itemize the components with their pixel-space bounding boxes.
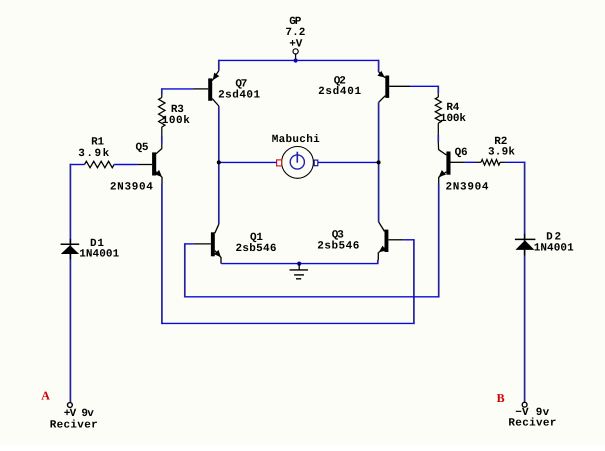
resistor R2 3.9k — [475, 136, 515, 165]
wire Q7 base to R3 — [162, 88, 194, 90]
wire R2 right corner down to D2 — [505, 161, 525, 163]
svg-text:1N4001: 1N4001 — [534, 243, 574, 255]
svg-text:2N3904: 2N3904 — [110, 182, 153, 194]
svg-text:Reciver: Reciver — [508, 417, 556, 429]
node A terminal — [41, 388, 97, 431]
wire R3 bottom to Q5 collector — [161, 127, 163, 136]
transistor Q3 2sb546 — [317, 222, 403, 260]
wire right trunk (Q2 emitter to Q3 collector) — [378, 102, 380, 222]
resistor R3 100k — [159, 98, 191, 128]
wire R4 bottom to Q6 collector — [437, 123, 439, 135]
svg-text:Reciver: Reciver — [50, 419, 98, 431]
wire ground rail — [221, 263, 378, 265]
wire R1 left corner down to D1 — [70, 164, 85, 166]
svg-text:1N4001: 1N4001 — [79, 249, 119, 261]
svg-text:2sd401: 2sd401 — [318, 86, 361, 98]
wire Q6 base to R2 — [465, 161, 476, 163]
svg-text:3.9k: 3.9k — [78, 148, 109, 160]
junction dot +V rail — [294, 58, 298, 62]
wire Q2 base to R4 — [410, 85, 438, 87]
svg-text:Q5: Q5 — [136, 142, 149, 154]
svg-text:R1: R1 — [91, 137, 104, 149]
svg-text:Q7: Q7 — [235, 78, 247, 90]
transistor Q7 2sd401 — [194, 71, 261, 106]
junction dot ground — [297, 262, 301, 266]
svg-text:100k: 100k — [440, 113, 466, 125]
svg-text:100k: 100k — [162, 115, 190, 127]
wire Q5 emitter to Q3 base (cross-coupling) — [161, 184, 163, 325]
svg-text:2sd401: 2sd401 — [218, 90, 260, 102]
junction dot motor right — [377, 160, 381, 164]
diode D1 1N4001 — [61, 238, 120, 261]
svg-text:2N3904: 2N3904 — [446, 182, 489, 194]
svg-text:Mabuchi: Mabuchi — [272, 134, 320, 146]
transistor Q6 2N3904 — [437, 147, 489, 194]
svg-text:D2: D2 — [546, 231, 561, 243]
wire left trunk (Q7 emitter to Q1 collector) — [218, 106, 220, 224]
svg-text:7.2: 7.2 — [285, 27, 305, 39]
transistor Q2 2sd401 — [318, 71, 410, 102]
svg-text:Q6: Q6 — [455, 147, 468, 159]
resistor R1 3.9k — [78, 137, 114, 168]
wire top rail — [219, 59, 379, 61]
svg-text:3.9k: 3.9k — [488, 147, 515, 159]
svg-text:2sb546: 2sb546 — [317, 241, 359, 253]
wire motor right — [318, 161, 379, 163]
diode D2 1N4001 — [515, 231, 574, 255]
node B terminal — [497, 391, 557, 430]
transistor Q1 2sb546 — [194, 224, 277, 263]
wire Q6 emitter to Q1 base (cross-coupling) — [438, 184, 440, 298]
resistor R4 100k — [435, 97, 466, 125]
svg-text:+V 9v: +V 9v — [64, 408, 94, 420]
+V terminal — [293, 49, 298, 59]
junction dot motor left — [217, 160, 221, 164]
svg-text:B: B — [497, 391, 505, 405]
wire R3 top — [161, 88, 163, 94]
motor Mabuchi — [272, 134, 320, 179]
ground symbol — [290, 264, 309, 279]
transistor Q5 2N3904 — [110, 142, 164, 194]
svg-text:2sb546: 2sb546 — [236, 243, 277, 255]
node GP +V label — [285, 16, 305, 51]
wire motor left — [219, 161, 277, 163]
wire R1 right to Q5 base — [114, 164, 137, 166]
svg-text:A: A — [41, 388, 50, 402]
